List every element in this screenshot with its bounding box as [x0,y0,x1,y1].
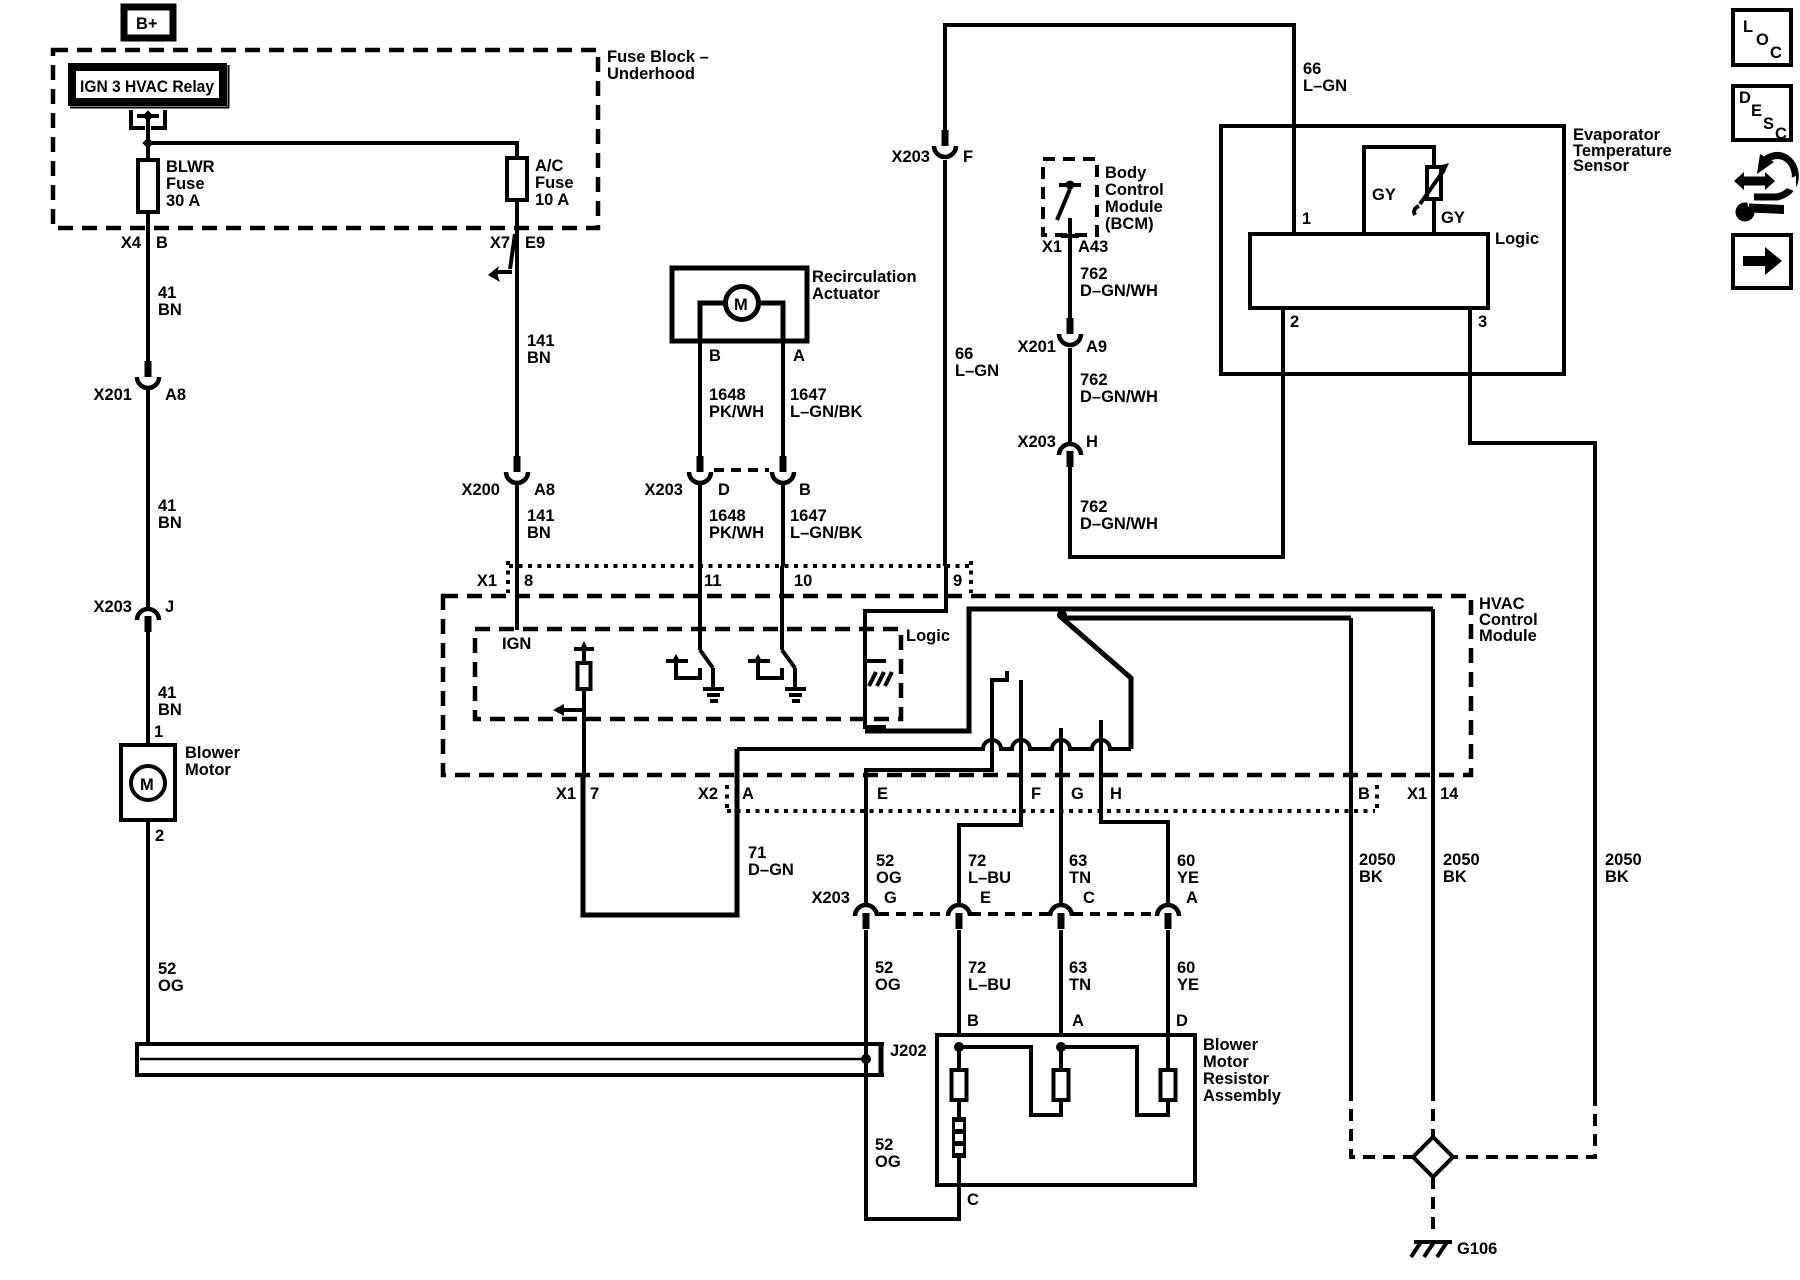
svg-text:TN: TN [1069,869,1091,887]
recirculation actuator [672,268,917,341]
IGN node label [502,635,531,653]
evaporator pin 2 wire [1283,308,1299,374]
connector X203 pin C [1050,889,1095,929]
svg-text:30 A: 30 A [166,192,200,210]
svg-text:E: E [877,785,888,803]
svg-text:2: 2 [1290,313,1299,331]
svg-text:X1: X1 [1407,785,1427,803]
svg-text:OG: OG [158,977,184,995]
svg-text:OG: OG [876,869,902,887]
svg-text:9: 9 [953,572,962,590]
wire label 41 BN (mid) [158,497,182,532]
svg-text:X7: X7 [490,234,510,252]
svg-text:D–GN: D–GN [748,861,794,879]
blower motor pin 1 label [154,723,163,741]
svg-text:BK: BK [1443,868,1467,886]
connector X2 pin A labels [698,785,754,803]
connector X203 pin F [891,130,973,166]
wire label 2050 BK (pin B) [1359,851,1396,886]
internal wire to pin G [1059,728,1063,903]
junction node below relay [142,137,153,148]
svg-text:B: B [1358,785,1370,803]
svg-text:1647: 1647 [790,386,827,404]
svg-text:BK: BK [1359,868,1383,886]
svg-text:A8: A8 [534,481,555,499]
svg-text:G106: G106 [1457,1240,1497,1258]
svg-text:S: S [1763,115,1774,133]
wire label 141 BN (upper) [527,332,555,367]
svg-text:8: 8 [524,572,533,590]
svg-text:52: 52 [876,852,894,870]
connector X203 pin H [1017,433,1097,467]
wire BLWR fuse down to X4-B [146,212,150,361]
svg-text:L–GN/BK: L–GN/BK [790,403,863,421]
svg-text:PK/WH: PK/WH [709,403,764,421]
wire A node to R3 [1061,1047,1168,1115]
resistor pin A label [1072,1012,1084,1030]
svg-text:A: A [742,785,754,803]
chassis ground m symbol [869,672,892,686]
svg-text:71: 71 [748,844,766,862]
svg-text:X203: X203 [1017,433,1056,451]
wire evaporator pin 3 to right side 2050 BK [1470,374,1595,1094]
internal wire to pin H [1101,720,1168,903]
junction dot pin A node [1056,1042,1066,1052]
HVAC control module dashed box [443,596,1471,775]
evaporator temperature sensor box [1221,126,1672,374]
wire X201 to X203-J [146,388,150,607]
wire label 762 D-GN/WH (mid) [1080,371,1158,406]
svg-text:B+: B+ [136,15,158,33]
svg-text:Fuse: Fuse [535,174,574,192]
svg-text:D: D [1176,1012,1188,1030]
connector X2 pin B label [1358,785,1370,803]
svg-text:H: H [1110,785,1122,803]
module ground wire to X1-14 [1431,609,1435,1089]
dashed link X203 D-B [714,468,769,472]
svg-text:11: 11 [704,572,721,590]
wire X203-B to pin 10 [781,483,785,566]
svg-text:L–BU: L–BU [968,869,1011,887]
wire X203-F down to pin 9 [943,160,947,566]
svg-text:Sensor: Sensor [1573,157,1630,175]
svg-text:OG: OG [875,976,901,994]
IGN internal dashed box [475,629,901,719]
svg-text:M: M [140,776,154,794]
wire X203-H down and right to evaporator pin 2 [1070,374,1283,557]
attached-connector arrow at X7 [488,234,515,282]
svg-text:2050: 2050 [1443,851,1480,869]
svg-text:X203: X203 [644,481,683,499]
svg-text:D: D [1739,89,1751,107]
svg-text:YE: YE [1177,976,1199,994]
relay contact symbol [131,110,165,143]
svg-text:(BCM): (BCM) [1105,215,1154,233]
svg-text:C: C [1770,44,1782,62]
svg-text:TN: TN [1069,976,1091,994]
svg-text:J: J [165,598,174,616]
wire pin 10 driver [782,566,795,689]
svg-text:BN: BN [158,701,182,719]
connector row X1 (top of HVAC module) dotted line [508,561,971,593]
svg-text:1648: 1648 [709,507,746,525]
connector X2 pin H label [1110,785,1122,803]
svg-text:D–GN/WH: D–GN/WH [1080,388,1158,406]
wire pin 11 driver [700,566,713,689]
blower motor pin 2 label [155,827,164,845]
wire label 60 YE (col H upper) [1177,852,1199,887]
svg-text:L–GN: L–GN [1303,77,1347,95]
svg-text:Module: Module [1479,627,1537,645]
wire label 41 BN (upper) [158,284,182,319]
svg-text:B: B [156,234,168,252]
svg-text:Underhood: Underhood [607,65,695,83]
connector X203 pin J [93,598,174,632]
svg-text:F: F [1031,785,1041,803]
connector X203 pin A [1157,889,1198,929]
svg-text:14: 14 [1440,785,1459,803]
connector X1 pin A43 [1042,236,1108,256]
wire label 1647 L-GN/BK (lower) [790,507,863,542]
svg-text:L–GN: L–GN [955,362,999,380]
svg-text:BN: BN [158,514,182,532]
wire relay to A/C fuse (horizontal) [148,143,517,158]
wire label 72 L-BU (lower) [968,959,1011,994]
thermal limiter [952,1117,966,1185]
splice diamond [1413,1137,1453,1177]
svg-text:Actuator: Actuator [812,285,880,303]
svg-text:A: A [1072,1012,1084,1030]
svg-text:762: 762 [1080,498,1108,516]
svg-text:X1: X1 [1042,238,1062,256]
svg-text:72: 72 [968,852,986,870]
recirculation actuator motor leads [700,303,783,341]
thermistor GY label (left) [1372,186,1396,204]
BCM internal switch [1057,181,1081,246]
wire label 72 L-BU (col F upper) [968,852,1011,887]
svg-text:141: 141 [527,507,555,525]
connector X203 row label [811,889,850,907]
svg-text:BN: BN [527,349,551,367]
connector X2 pin F label [1031,785,1041,803]
wire label 52 OG (left) [158,960,184,995]
svg-text:L: L [1743,18,1753,36]
BCM label [1105,164,1164,233]
svg-text:Recirculation: Recirculation [812,268,917,286]
wire X203-J to blower motor [146,632,150,745]
internal wire to pin E [866,671,1007,903]
svg-text:2: 2 [155,827,164,845]
svg-text:B: B [967,1012,979,1030]
wire 52 OG to resistor pin C via J202 [866,930,959,1219]
icon forward arrow box [1733,235,1791,288]
junction dot pin B node [954,1042,964,1052]
logic ground bracket [865,661,886,727]
fuse BLWR 30A [138,158,215,212]
svg-text:762: 762 [1080,371,1108,389]
svg-text:L–GN/BK: L–GN/BK [790,524,863,542]
svg-text:3: 3 [1478,313,1487,331]
svg-text:J202: J202 [890,1042,927,1060]
wire BCM to X201-A9 [1068,245,1072,318]
svg-text:X1: X1 [477,572,497,590]
wire label 141 BN (lower) [527,507,555,542]
resistor pin C lead [967,1191,979,1209]
svg-text:63: 63 [1069,852,1087,870]
splice J202 junction dot [861,1042,927,1064]
svg-text:BN: BN [527,524,551,542]
fuse A/C 10A [507,157,574,209]
fuse block underhood dashed box [53,50,598,228]
actuator pin B label [709,347,721,365]
wire label 63 TN (col G upper) [1069,852,1091,887]
svg-text:Body: Body [1105,164,1147,182]
icon DESC box [1733,86,1791,143]
connector X201 A8 [93,361,186,404]
svg-text:BLWR: BLWR [166,158,215,176]
wire A/C fuse down through X7-E9 [515,200,519,456]
svg-text:41: 41 [158,684,176,702]
wire X201-A9 to X203-H [1068,348,1072,442]
svg-text:Logic: Logic [906,627,950,645]
svg-text:60: 60 [1177,959,1195,977]
svg-text:2050: 2050 [1605,851,1642,869]
svg-text:BN: BN [158,301,182,319]
wire X203-D to pin 11 [698,483,702,566]
resistor R2 [1054,1047,1069,1100]
wire label 1647 L-GN/BK (upper) [790,386,863,421]
wire pin 9 into logic [865,566,946,661]
svg-text:D: D [718,481,730,499]
wire pin 8 into IGN box [515,566,519,630]
driver gate symbol (pin 10) [748,654,782,678]
svg-text:72: 72 [968,959,986,977]
connector X4 pin B labels [121,234,168,252]
thermistor lead to logic [1432,199,1436,234]
connector X203 pin E [948,889,991,929]
ground bus dashed (middle branch) [1431,1089,1435,1139]
wire X203-A to resistor pin D [1166,930,1170,1035]
svg-text:41: 41 [158,284,176,302]
connector X203 pin B [772,456,811,499]
resistor R3 [1161,1035,1176,1100]
ground symbol (pin 11 driver) [703,689,724,701]
wire label 1648 PK/WH (upper) [709,386,764,421]
svg-text:GY: GY [1441,209,1465,227]
actuator pin A label [793,347,805,365]
svg-text:Assembly: Assembly [1203,1087,1282,1105]
evaporator logic block [1250,230,1539,308]
svg-text:1648: 1648 [709,386,746,404]
resistor pin B label [967,1012,979,1030]
logic block label [906,627,950,645]
wire 66 L-GN top feed [945,25,1294,130]
svg-text:Fuse: Fuse [166,175,205,193]
wire label 63 TN (lower) [1069,959,1091,994]
svg-text:A/C: A/C [535,157,564,175]
connector X1 pin 14 labels [1407,785,1459,803]
wire label 2050 BK (right) [1605,851,1642,886]
svg-text:10 A: 10 A [535,191,569,209]
connector row X2 dotted line [727,785,1377,812]
wire label 1648 PK/WH (lower) [709,507,764,542]
svg-text:1: 1 [1302,210,1311,228]
wire label 52 OG (bottom) [875,1136,901,1171]
svg-text:41: 41 [158,497,176,515]
B+ battery feed box [124,7,173,38]
resistor R1 [952,1047,967,1117]
connector row X203 dashed line [879,912,1156,916]
connector X2 pin E label [877,785,888,803]
blower feed diagonal inside module [1062,618,1131,749]
HVAC control module label [1479,595,1538,645]
svg-text:IGN 3 HVAC Relay: IGN 3 HVAC Relay [80,78,215,96]
svg-text:1: 1 [154,723,163,741]
svg-text:63: 63 [1069,959,1087,977]
svg-text:Fuse Block –: Fuse Block – [607,48,709,66]
svg-text:A: A [793,347,805,365]
connector X1 row labels [477,572,962,590]
wire X203-E to resistor pin B [957,930,961,1035]
resistor pin D label [1176,1012,1188,1030]
svg-text:X203: X203 [93,598,132,616]
svg-text:PK/WH: PK/WH [709,524,764,542]
icon data-exchange arrows with wrench [1734,154,1796,222]
ground bus dashed (right branch) [1451,1094,1595,1157]
connector X201 pin A9 [1017,318,1107,356]
evaporator pin 1 wire [1294,127,1311,234]
svg-text:D–GN/WH: D–GN/WH [1080,515,1158,533]
ground G106 [1411,1240,1497,1258]
wire label 762 D-GN/WH (upper) [1080,265,1158,300]
thermistor loop wire [1364,147,1434,234]
svg-text:Motor: Motor [1203,1053,1249,1071]
svg-text:L–BU: L–BU [968,976,1011,994]
svg-text:52: 52 [158,960,176,978]
blower motor resistor assembly box [937,1035,1282,1185]
svg-text:X203: X203 [811,889,850,907]
svg-text:G: G [884,889,897,907]
connector X1 pin 7 labels [556,785,599,803]
svg-text:G: G [1071,785,1084,803]
svg-text:A9: A9 [1086,338,1107,356]
svg-text:A43: A43 [1078,238,1108,256]
svg-text:M: M [734,296,748,314]
svg-text:66: 66 [1303,60,1321,78]
svg-text:B: B [709,347,721,365]
svg-text:C: C [1775,125,1787,143]
fuse block label [607,48,709,83]
svg-text:52: 52 [875,1136,893,1154]
connector X2 pin G label [1071,785,1084,803]
relay K: IGN 3 HVAC Relay label box [68,63,229,108]
blower motor [121,744,241,820]
svg-text:IGN: IGN [502,635,531,653]
ground bus dashed (left branch) [1351,1089,1415,1157]
wire label 66 L-GN (mid) [955,345,999,380]
driver gate symbol (pin 11) [666,654,700,678]
wire relay to BLWR fuse [146,143,150,160]
wire label 52 OG (col E upper) [876,852,902,887]
wire label 2050 BK (X1-14) [1443,851,1480,886]
svg-text:O: O [1756,31,1769,49]
svg-text:Motor: Motor [185,761,231,779]
ground bus dashed to G106 [1431,1177,1435,1237]
internal wire to pin F [959,680,1021,903]
svg-text:X200: X200 [461,481,500,499]
svg-text:Blower: Blower [185,744,241,762]
J202 harness channel [137,1042,884,1077]
svg-text:X2: X2 [698,785,718,803]
wire actuator B to X203-D [698,341,702,456]
svg-text:X4: X4 [121,234,142,252]
thermistor RT [1414,163,1449,215]
svg-text:52: 52 [875,959,893,977]
wire label 41 BN (lower) [158,684,182,719]
wire pin B down [1349,618,1353,1089]
connector X203 pin G [855,889,897,929]
svg-text:E: E [1751,102,1762,120]
wire X203-C to resistor pin A [1059,930,1063,1035]
blower speed control regulator [553,641,594,777]
wire B node to R2 [959,1047,1061,1115]
wire actuator A to X203-B [781,341,785,456]
svg-text:E: E [980,889,991,907]
svg-text:F: F [963,148,973,166]
connector X7 pin E9 labels [490,234,545,252]
svg-text:YE: YE [1177,869,1199,887]
svg-text:BK: BK [1605,868,1629,886]
svg-text:10: 10 [794,572,812,590]
wire label 762 D-GN/WH (lower) [1080,498,1158,533]
svg-text:GY: GY [1372,186,1396,204]
svg-text:1647: 1647 [790,507,827,525]
evaporator pin 3 wire [1470,308,1487,374]
body control module dashed box [1043,159,1097,235]
svg-text:Control: Control [1105,181,1164,199]
wire blower motor to J202 bus [146,820,150,1046]
connector X200 pin A8 [461,456,555,499]
svg-text:7: 7 [590,785,599,803]
wire label 71 D-GN [748,844,794,879]
svg-text:H: H [1086,433,1098,451]
svg-text:X1: X1 [556,785,576,803]
wire X200-A8 to pin 8 [515,483,519,566]
icon LOC box [1733,10,1791,65]
connector X203 pin D [644,456,730,499]
svg-text:E9: E9 [525,234,545,252]
logic block outline (thick) [865,609,1433,731]
wire label 66 L-GN (top right) [1303,60,1347,95]
svg-text:Module: Module [1105,198,1163,216]
svg-text:X203: X203 [891,148,930,166]
thermistor GY label (right) [1441,209,1465,227]
svg-text:66: 66 [955,345,973,363]
svg-text:B: B [799,481,811,499]
svg-text:60: 60 [1177,852,1195,870]
wire label 60 YE (lower) [1177,959,1199,994]
svg-text:Resistor: Resistor [1203,1070,1270,1088]
svg-text:762: 762 [1080,265,1108,283]
ground symbol (pin 10 driver) [785,689,806,701]
svg-text:D–GN/WH: D–GN/WH [1080,282,1158,300]
svg-text:A8: A8 [165,386,186,404]
svg-text:A: A [1186,889,1198,907]
svg-text:Blower: Blower [1203,1036,1259,1054]
svg-text:X201: X201 [93,386,132,404]
svg-text:C: C [967,1191,979,1209]
svg-text:141: 141 [527,332,555,350]
